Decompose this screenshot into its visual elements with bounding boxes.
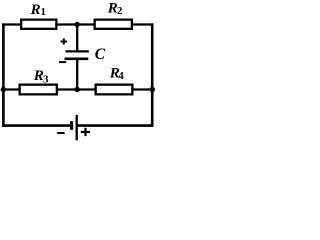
node B: left junction on left frame — [1, 87, 6, 92]
wire: top rail right segment — [132, 23, 154, 25]
battery negative short plate — [70, 121, 73, 130]
wire: top rail middle segment — [56, 23, 94, 25]
svg-text:R: R — [30, 2, 41, 18]
battery positive long plate — [76, 115, 78, 141]
svg-text:2: 2 — [117, 5, 123, 17]
capacitor C top plate — [66, 50, 89, 52]
wire: middle rail middle segment — [57, 88, 96, 90]
battery plus sign — [81, 128, 90, 136]
wire: middle rail left segment — [2, 88, 20, 90]
capacitor polarity minus sign — [59, 61, 66, 63]
wire: top rail left segment — [2, 23, 21, 25]
wire: bottom rail right segment — [77, 124, 154, 127]
node D: middle junction between R3 and R4 — [75, 87, 80, 92]
resistor R2 — [95, 20, 132, 29]
node A: top junction between R1 and R2 — [75, 22, 80, 27]
wire: middle rail right segment — [132, 88, 153, 90]
resistor R4 — [96, 85, 133, 95]
resistor R1 — [21, 20, 56, 29]
svg-text:C: C — [95, 46, 106, 63]
wire: right frame vertical — [151, 23, 154, 127]
resistor R3 — [20, 85, 57, 95]
wire: capacitor branch lower — [76, 60, 78, 91]
svg-text:1: 1 — [41, 6, 47, 18]
svg-text:3: 3 — [43, 73, 49, 85]
capacitor C bottom plate — [65, 58, 89, 61]
battery minus sign — [57, 132, 65, 134]
wire: left frame vertical — [2, 23, 5, 127]
node E: right junction on right frame — [150, 87, 155, 92]
svg-text:4: 4 — [118, 70, 124, 82]
wire: bottom rail left segment — [2, 124, 70, 127]
capacitor polarity plus sign — [61, 38, 67, 44]
wire: capacitor branch upper — [76, 23, 78, 50]
